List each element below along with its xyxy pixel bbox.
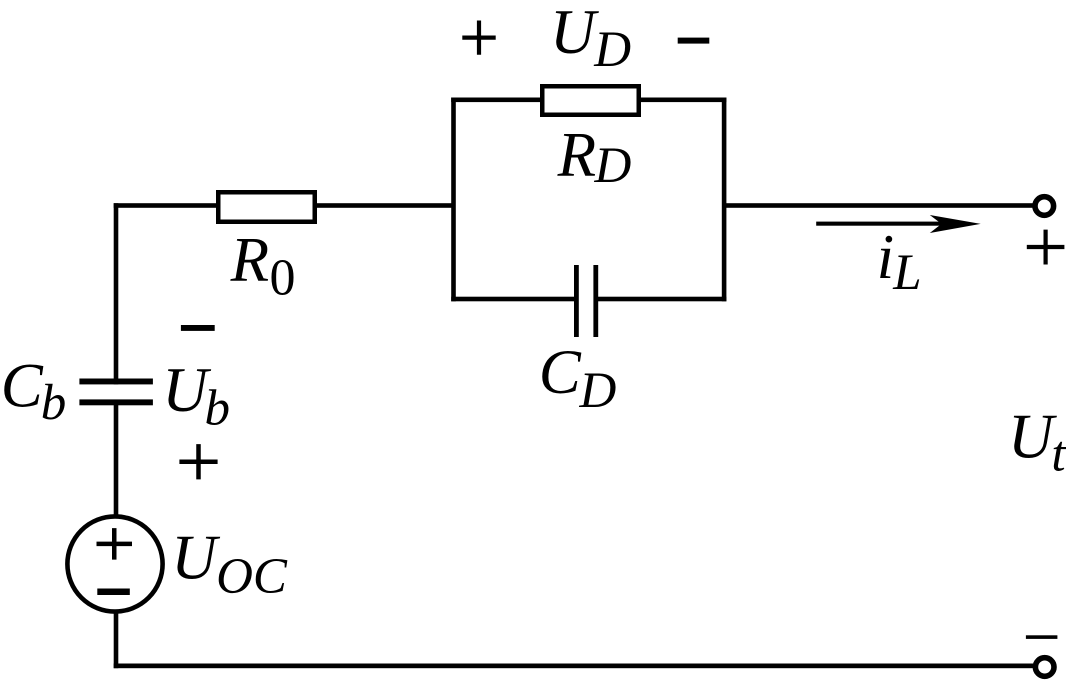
svg-text:U: U bbox=[1008, 402, 1057, 472]
label UOC bbox=[171, 523, 288, 605]
svg-text:C: C bbox=[1, 351, 44, 421]
svg-text:R: R bbox=[557, 120, 596, 190]
polarity plus for Ub bbox=[179, 444, 217, 479]
svg-text:R: R bbox=[230, 225, 269, 295]
wire: parallel block bottom edge left of CD bbox=[451, 297, 577, 302]
svg-text:D: D bbox=[579, 363, 617, 419]
wire: parallel block top edge bbox=[451, 98, 726, 103]
label R0 bbox=[230, 225, 296, 307]
wire: parallel block left vertical bbox=[451, 98, 456, 302]
wire: parallel block bottom edge right of CD bbox=[594, 297, 726, 302]
svg-text:U: U bbox=[550, 0, 599, 67]
resistor RD bbox=[542, 86, 639, 115]
terminal: positive (top right) bbox=[1035, 197, 1054, 216]
wire: top-left horizontal from corner to R0 bbox=[114, 203, 219, 208]
wire: bottom rail to - terminal bbox=[114, 664, 1035, 669]
current arrow iL bbox=[816, 215, 981, 233]
terminal: negative (bottom right) bbox=[1035, 658, 1054, 677]
wire: R0 to parallel block bbox=[315, 203, 455, 208]
wire: left vertical from corner down to Cb top plate bbox=[114, 203, 119, 384]
label Ub bbox=[162, 355, 230, 436]
svg-text:L: L bbox=[892, 245, 921, 301]
capacitor Cb bbox=[79, 379, 152, 406]
polarity minus for Ut bbox=[1026, 635, 1058, 639]
label Ut bbox=[1008, 402, 1066, 483]
voltage source UOC bbox=[67, 516, 162, 611]
polarity minus for Ub bbox=[181, 325, 215, 331]
wire: source bottom to bottom rail bbox=[114, 610, 119, 668]
polarity minus for UD bbox=[678, 38, 710, 44]
wire: parallel block right vertical bbox=[722, 98, 727, 302]
label CD bbox=[539, 337, 617, 419]
polarity plus for UD bbox=[462, 21, 495, 55]
capacitor CD bbox=[574, 265, 598, 337]
label UD bbox=[550, 0, 631, 78]
svg-text:D: D bbox=[594, 138, 632, 194]
svg-text:D: D bbox=[593, 22, 631, 78]
wire: output to + terminal bbox=[724, 203, 1034, 208]
wire: Cb bottom plate down to source bbox=[114, 402, 119, 516]
svg-text:b: b bbox=[205, 380, 231, 436]
svg-text:t: t bbox=[1051, 427, 1066, 483]
polarity plus for Ut bbox=[1027, 230, 1065, 265]
label iL bbox=[877, 222, 922, 301]
label RD bbox=[557, 120, 632, 194]
svg-text:C: C bbox=[539, 337, 582, 407]
resistor R0 bbox=[218, 192, 315, 222]
label Cb bbox=[1, 351, 67, 431]
svg-text:OC: OC bbox=[216, 549, 288, 605]
svg-text:b: b bbox=[41, 375, 66, 431]
svg-text:0: 0 bbox=[270, 250, 296, 307]
svg-text:i: i bbox=[877, 222, 895, 292]
svg-text:U: U bbox=[171, 523, 220, 593]
